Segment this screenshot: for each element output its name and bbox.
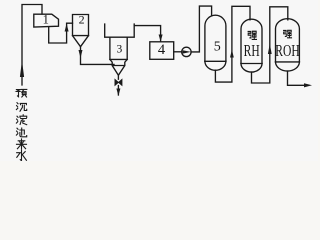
wire unit5 to tank RH <box>215 6 250 82</box>
wire unit3 drain <box>117 75 119 95</box>
unit 1 (dosing box) <box>34 14 59 27</box>
svg-text:3: 3 <box>117 44 123 56</box>
node label 预沉淀池来水 (vertical feed-water text, drawn glyphs) <box>16 89 26 160</box>
wire unit1 to unit2 <box>49 23 73 43</box>
flow arrow down <box>79 50 83 58</box>
flow arrow up on riser <box>268 44 272 55</box>
flow arrow right at outlet <box>304 83 312 87</box>
unit 2 (mixer with cone) <box>73 15 89 36</box>
svg-text:ROH: ROH <box>275 42 299 61</box>
unit 3 (clarifier/filter) <box>105 24 135 37</box>
flow arrow up on inlet <box>20 61 24 78</box>
wire unit2 to unit3 <box>81 47 115 65</box>
wire unit4 to pump <box>174 51 182 53</box>
svg-text:5: 5 <box>214 39 221 54</box>
wire pump to unit5 top <box>191 6 212 52</box>
wire inlet riser <box>22 5 42 86</box>
valve (bowtie) on drain <box>115 79 122 85</box>
unit 5 (ion-exchange vessel) <box>205 15 226 61</box>
svg-text:RH: RH <box>244 42 260 61</box>
wire ROH outlet <box>288 71 306 85</box>
svg-text:2: 2 <box>79 13 85 27</box>
unit 4 (tank box) <box>150 42 174 60</box>
flow arrow down into unit 4 <box>159 35 163 42</box>
svg-text:4: 4 <box>158 42 166 58</box>
pump P (circle with arrow) <box>182 47 191 56</box>
flow arrow down at drain end <box>116 89 120 97</box>
wire tank RH to tank ROH <box>252 7 288 83</box>
tank ROH (strong-base anion exchanger) <box>276 19 300 62</box>
tank RH (strong-acid cation exchanger) <box>241 19 262 63</box>
flow arrow up into unit 2 <box>65 24 69 32</box>
flow arrow up on riser <box>230 50 234 58</box>
svg-text:1: 1 <box>43 13 49 27</box>
wire unit3 to unit4 <box>134 26 160 42</box>
